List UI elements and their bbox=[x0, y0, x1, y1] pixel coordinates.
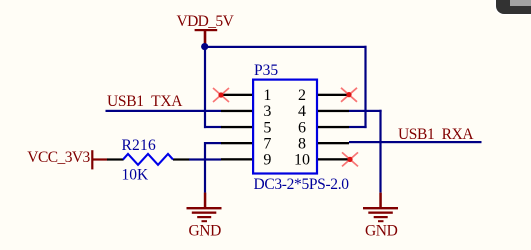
svg-text:10: 10 bbox=[294, 152, 310, 169]
svg-text:GND: GND bbox=[365, 223, 398, 240]
svg-text:R216: R216 bbox=[122, 137, 156, 154]
svg-text:9: 9 bbox=[263, 152, 271, 169]
svg-text:10K: 10K bbox=[122, 167, 150, 184]
svg-text:1: 1 bbox=[263, 87, 271, 104]
svg-text:3: 3 bbox=[263, 103, 271, 120]
svg-text:VDD_5V: VDD_5V bbox=[177, 13, 235, 30]
svg-text:USB1_RXA: USB1_RXA bbox=[398, 126, 474, 143]
svg-text:8: 8 bbox=[298, 135, 306, 152]
svg-text:P35: P35 bbox=[254, 62, 278, 79]
svg-text:GND: GND bbox=[189, 223, 222, 240]
svg-text:VCC_3V3: VCC_3V3 bbox=[27, 149, 90, 166]
svg-text:4: 4 bbox=[298, 103, 306, 120]
svg-text:USB1_TXA: USB1_TXA bbox=[107, 93, 183, 110]
svg-text:2: 2 bbox=[298, 87, 306, 104]
svg-text:7: 7 bbox=[263, 135, 271, 152]
svg-text:5: 5 bbox=[263, 119, 271, 136]
svg-text:6: 6 bbox=[298, 119, 306, 136]
svg-text:DC3-2*5PS-2.0: DC3-2*5PS-2.0 bbox=[254, 176, 350, 193]
